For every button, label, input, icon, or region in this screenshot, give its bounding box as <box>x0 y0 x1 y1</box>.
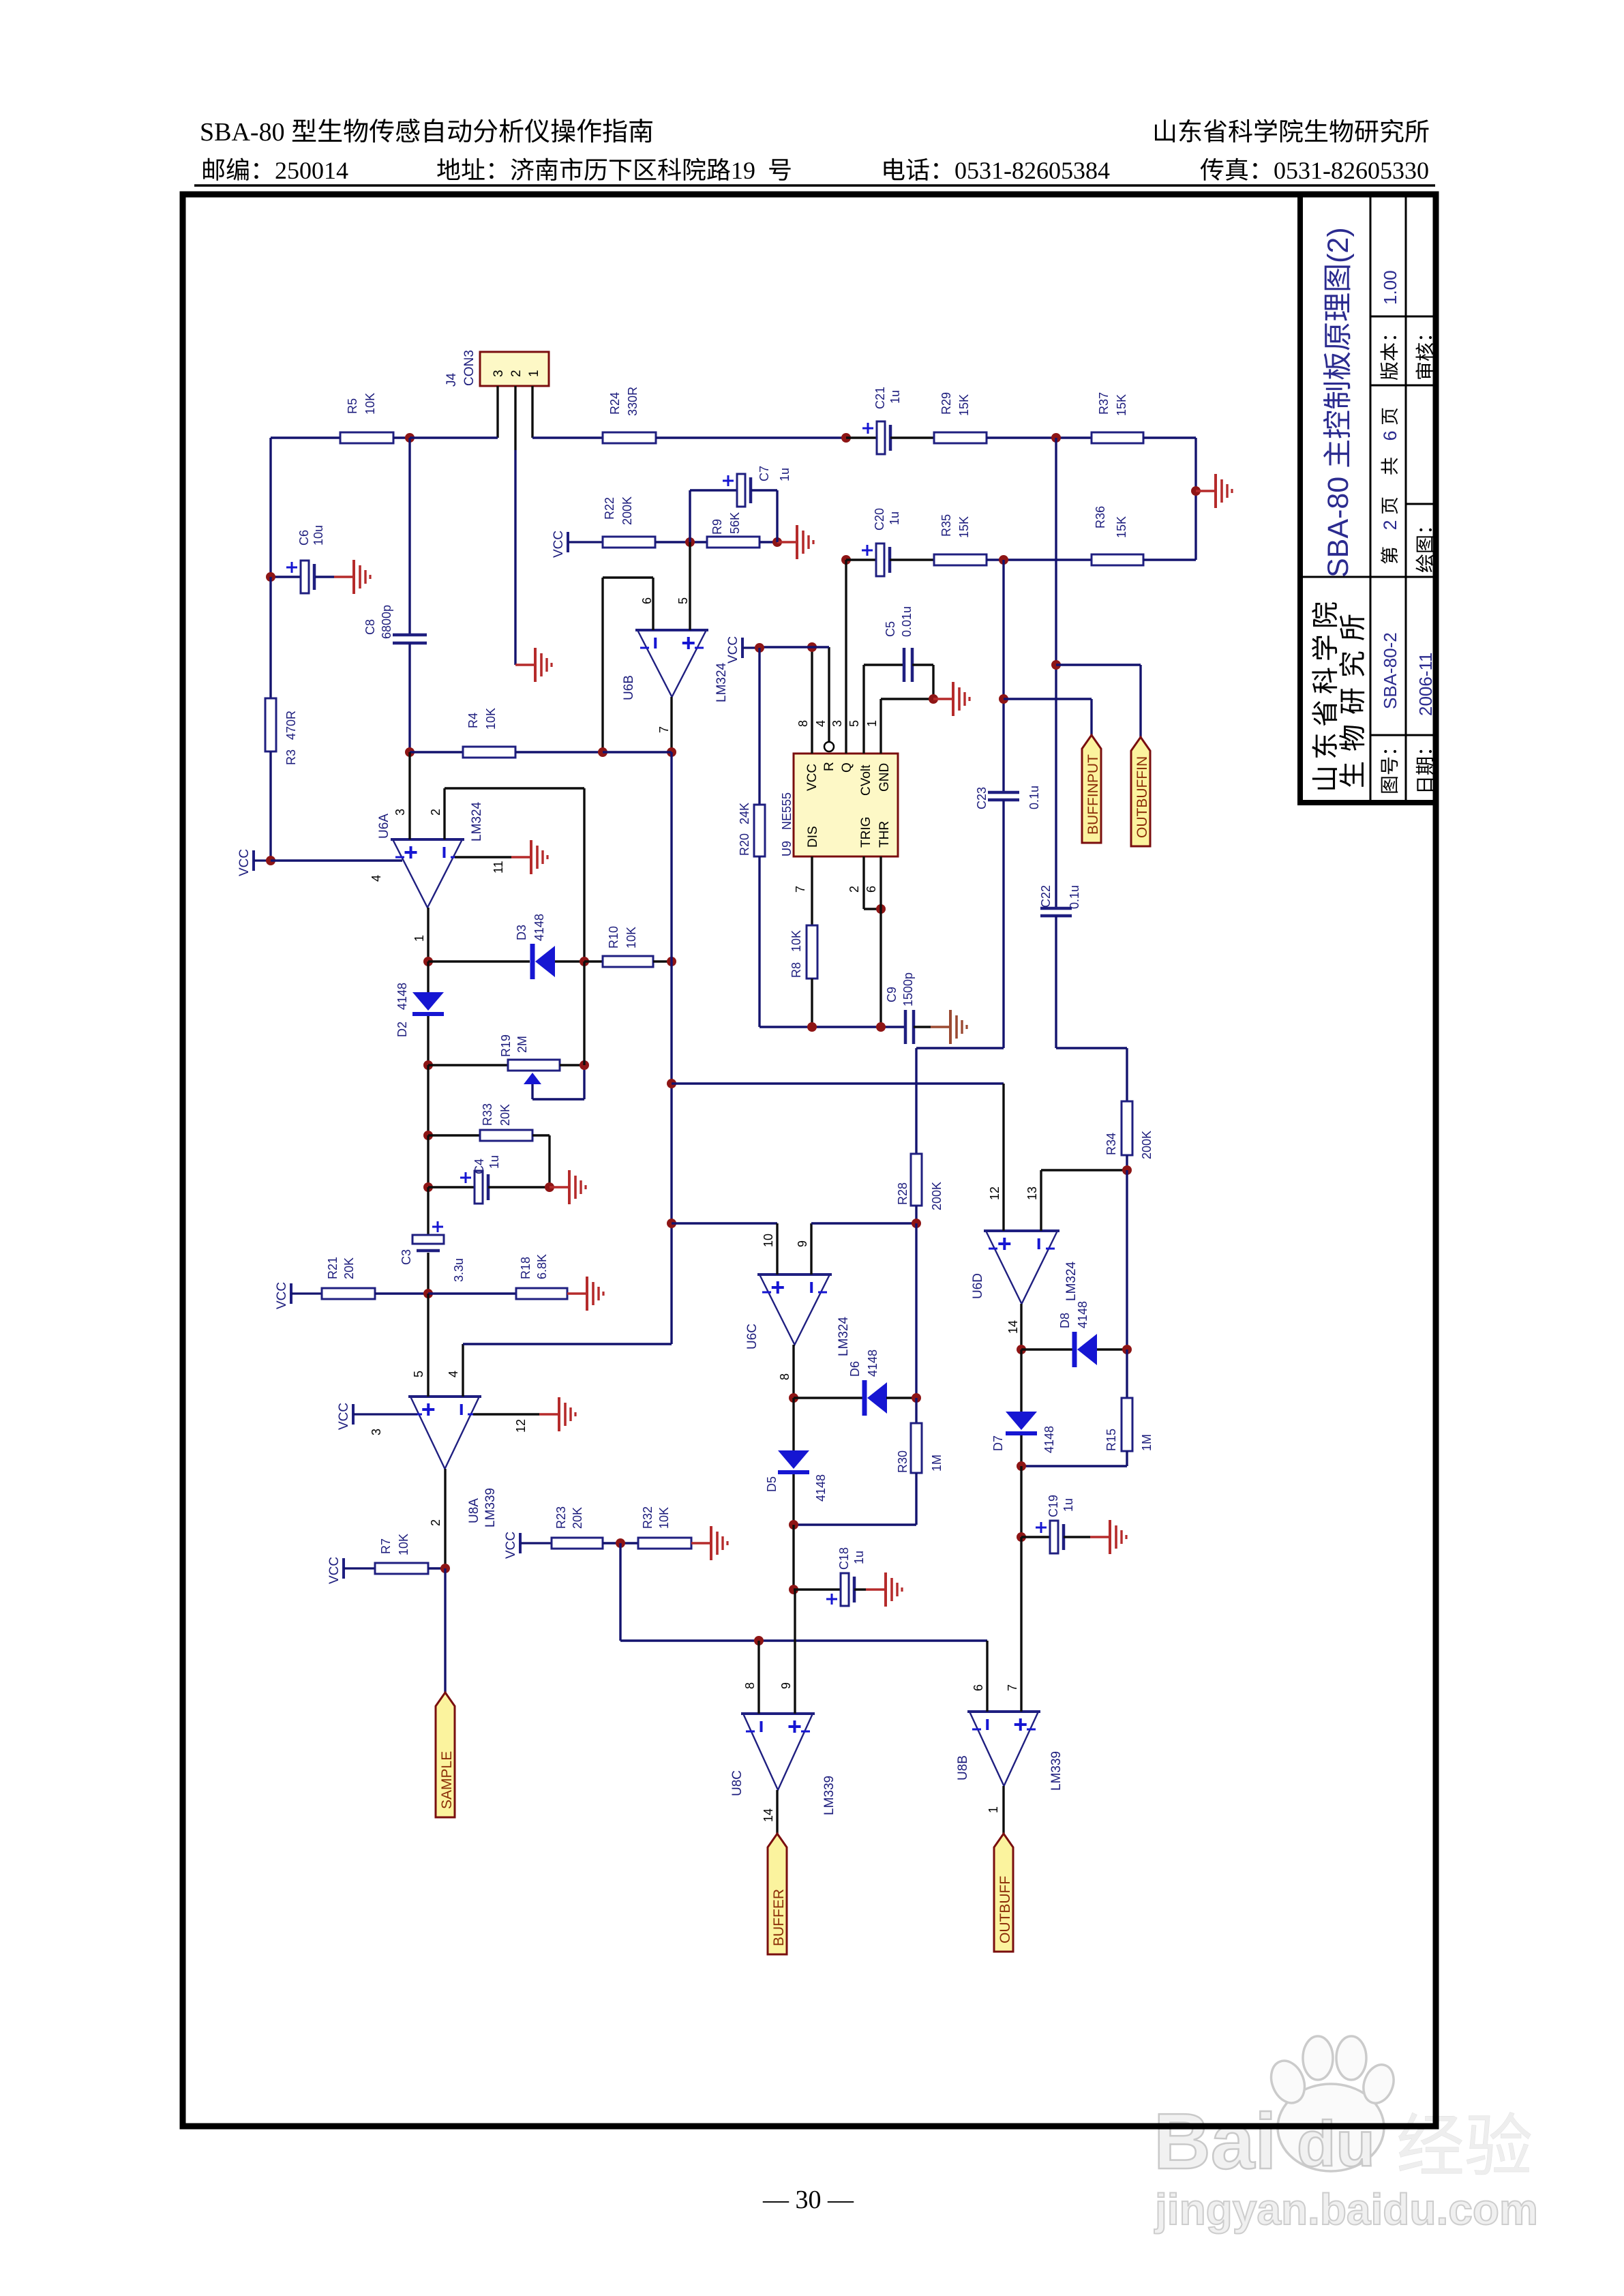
resistor R21 <box>322 1257 428 1299</box>
svg-text:4: 4 <box>447 1371 460 1377</box>
svg-text:6: 6 <box>864 886 878 893</box>
node R7-output junction <box>440 1564 450 1573</box>
node pin2-pin6 junction <box>876 904 886 914</box>
wire U8A output <box>429 1469 445 1568</box>
svg-text:LM324: LM324 <box>470 801 484 841</box>
node U6A out junction <box>423 957 530 966</box>
svg-text:R20: R20 <box>738 833 751 856</box>
svg-text:10K: 10K <box>625 927 638 949</box>
svg-text:4148: 4148 <box>1076 1301 1089 1328</box>
svg-text:R10: R10 <box>607 926 620 949</box>
svg-text:5: 5 <box>676 597 690 604</box>
svg-text:2: 2 <box>429 1519 442 1526</box>
svg-text:C20: C20 <box>873 508 886 531</box>
svg-text:2: 2 <box>509 370 524 377</box>
node D3-R10 junction <box>580 957 603 966</box>
node C4-ground junction <box>545 1182 554 1192</box>
node BUFFINPUT tap <box>999 694 1092 735</box>
node R23-R32 junction <box>616 1538 625 1548</box>
node U6D-out junction <box>1017 1345 1072 1354</box>
svg-text:R30: R30 <box>896 1450 909 1473</box>
svg-text:C9: C9 <box>885 987 899 1002</box>
wire C23 to R28 <box>916 1048 1004 1154</box>
wire J4 pin3 stub <box>496 386 498 438</box>
resistor R3 <box>265 577 298 861</box>
diode D7 <box>991 1350 1056 1466</box>
svg-text:4148: 4148 <box>1042 1426 1056 1453</box>
svg-text:R19: R19 <box>499 1034 513 1057</box>
node D7-R15 junction <box>1017 1461 1026 1537</box>
node rail2 tap <box>841 555 851 565</box>
svg-text:1.00: 1.00 <box>1380 270 1400 305</box>
field version <box>1380 336 1398 380</box>
svg-text:R29: R29 <box>939 392 953 415</box>
svg-text:6: 6 <box>640 597 654 604</box>
svg-text:11: 11 <box>492 861 505 874</box>
svg-text:TRIG: TRIG <box>859 817 873 848</box>
resistor R20 <box>738 648 765 1027</box>
resistor R35 <box>934 514 1092 565</box>
wire U9 pin2 trigger <box>847 856 881 909</box>
svg-text:10K: 10K <box>790 930 803 952</box>
svg-text:R5: R5 <box>346 398 359 414</box>
wire rail J4 to R24 <box>532 436 603 438</box>
capacitor C4 <box>460 1155 550 1204</box>
svg-text:C22: C22 <box>1039 885 1053 908</box>
node VCC-R3 junction <box>266 856 402 882</box>
svg-text:3: 3 <box>830 720 844 727</box>
capacitor C5 <box>884 606 933 699</box>
svg-text:4148: 4148 <box>395 983 409 1010</box>
op-amp U8C <box>730 1714 837 1815</box>
node D5-R30 junction <box>789 1520 798 1590</box>
watermark Baidu logo <box>1154 2036 1399 2186</box>
wire U9 pin7 discharge <box>794 856 812 925</box>
svg-text:1: 1 <box>865 720 879 727</box>
ground C9 <box>931 1010 967 1044</box>
ground C6 <box>334 560 370 594</box>
wire R33 to C4 row <box>427 1135 429 1187</box>
node R28-pin9 junction <box>912 1219 921 1398</box>
net flag SAMPLE <box>436 1568 455 1817</box>
resistor R37 <box>1092 392 1196 443</box>
svg-text:R: R <box>822 762 837 771</box>
svg-text:VCC: VCC <box>327 1557 342 1584</box>
resistor R28 <box>896 1154 944 1223</box>
wire U8B output <box>987 1786 1004 1834</box>
op-amp U6C <box>745 1274 851 1356</box>
node R4-U6B-pin6 junction <box>598 747 607 757</box>
resistor R24 <box>603 387 846 443</box>
svg-text:200K: 200K <box>930 1182 944 1210</box>
svg-text:THR: THR <box>877 821 892 848</box>
svg-text:15K: 15K <box>957 516 971 538</box>
wire left rail <box>269 438 271 577</box>
wire VCC rail U9 <box>760 646 829 648</box>
node R10-U6B-out junction <box>667 752 676 966</box>
svg-text:1u: 1u <box>778 468 792 481</box>
svg-text:4148: 4148 <box>814 1474 828 1502</box>
svg-text:VCC: VCC <box>275 1282 289 1309</box>
resistor R10 <box>603 926 672 967</box>
node VCC-pin8 junction <box>807 642 817 652</box>
node C8-R4 junction <box>405 747 463 757</box>
svg-text:6: 6 <box>1380 430 1400 441</box>
svg-text:VCC: VCC <box>237 849 252 876</box>
node D2-R19 junction <box>423 1060 508 1070</box>
svg-text:15K: 15K <box>1115 394 1128 416</box>
power VCC R22 <box>552 531 603 558</box>
svg-text:R36: R36 <box>1094 506 1107 528</box>
wire U8B pin7 input <box>1006 1537 1021 1712</box>
wire R23 node down <box>620 1543 987 1641</box>
svg-text:9: 9 <box>779 1682 793 1689</box>
svg-text:J4: J4 <box>445 373 459 387</box>
svg-text:R9: R9 <box>710 519 724 535</box>
resistor R18 <box>516 1254 567 1299</box>
svg-text:C4: C4 <box>472 1159 486 1174</box>
wire U6C pin9 input <box>796 1223 916 1274</box>
wire 555 bottom rail <box>760 1026 904 1028</box>
svg-text:1: 1 <box>527 370 541 377</box>
svg-text:R4: R4 <box>466 713 480 728</box>
svg-text:20K: 20K <box>498 1104 512 1126</box>
capacitor C18 <box>826 1547 866 1606</box>
svg-text:GND: GND <box>877 763 892 792</box>
svg-text:15K: 15K <box>1115 516 1128 538</box>
svg-text:LM324: LM324 <box>715 662 729 702</box>
capacitor C6 <box>271 525 334 593</box>
header rule <box>194 184 1435 187</box>
resistor R15 <box>1021 1350 1154 1466</box>
svg-text:VCC: VCC <box>337 1403 351 1430</box>
wire U6A pin11 <box>455 857 511 874</box>
svg-text:SAMPLE: SAMPLE <box>439 1751 455 1809</box>
wire U6D output <box>1006 1304 1021 1350</box>
svg-text:4: 4 <box>814 720 828 727</box>
svg-text:4148: 4148 <box>866 1350 879 1377</box>
svg-text:— 30 —: — 30 — <box>762 2186 854 2214</box>
svg-text:R33: R33 <box>481 1103 494 1126</box>
power VCC U8A supply <box>337 1403 417 1435</box>
svg-text:0.1u: 0.1u <box>1027 786 1041 809</box>
wire C22 to R34 <box>1056 1048 1127 1101</box>
svg-text:3: 3 <box>370 1429 383 1435</box>
connector J4 CON3 <box>445 350 549 387</box>
svg-text:U9: U9 <box>780 841 794 856</box>
svg-text:du: du <box>1297 2108 1375 2179</box>
svg-text:1u: 1u <box>888 390 902 404</box>
power VCC U6A supply <box>237 849 271 876</box>
svg-text:LM324: LM324 <box>837 1316 851 1356</box>
wire U8C pin9 input <box>779 1590 795 1714</box>
svg-text:1u: 1u <box>852 1551 866 1564</box>
field date <box>1416 750 1434 791</box>
wire U8C output <box>762 1790 777 1834</box>
svg-text:7: 7 <box>657 726 671 733</box>
node R19-wiper junction <box>580 961 589 1070</box>
svg-text:NE555: NE555 <box>780 792 794 830</box>
svg-text:VCC: VCC <box>805 764 819 791</box>
svg-text:Bai: Bai <box>1154 2097 1277 2186</box>
svg-text:10: 10 <box>762 1234 775 1247</box>
resistor R23 <box>552 1506 638 1549</box>
power VCC R7 <box>327 1557 375 1584</box>
op-amp U6A <box>377 801 484 908</box>
svg-text:R35: R35 <box>939 514 953 537</box>
svg-text:330R: 330R <box>626 387 640 416</box>
svg-text:1M: 1M <box>930 1455 944 1472</box>
field reviewer <box>1415 336 1433 379</box>
svg-text:1u: 1u <box>487 1155 501 1169</box>
op-amp U8A <box>408 1397 498 1527</box>
diode D6 <box>848 1350 916 1416</box>
title text SBA-80 main control board schematic <box>1322 227 1355 578</box>
wire U6A output <box>412 908 428 961</box>
resistor R32 <box>638 1506 691 1549</box>
svg-text:10K: 10K <box>397 1534 410 1555</box>
svg-text:0.1u: 0.1u <box>1068 885 1081 909</box>
wire U8A pin4 input <box>447 1344 672 1397</box>
svg-text:8: 8 <box>778 1373 792 1380</box>
resistor R5 <box>271 393 410 443</box>
svg-text:C18: C18 <box>837 1547 851 1570</box>
svg-text:C3: C3 <box>400 1249 413 1265</box>
node R22-R9 junction <box>685 537 695 547</box>
power VCC R21 <box>275 1282 322 1309</box>
op-amp U8B <box>956 1712 1064 1791</box>
svg-text:19: 19 <box>731 157 755 184</box>
wire U6A pin2 feedback <box>429 788 584 961</box>
node rail2-R36 junction <box>999 555 1008 565</box>
svg-text:9: 9 <box>796 1240 809 1247</box>
ground right rail <box>1191 474 1232 508</box>
svg-text:SBA-80: SBA-80 <box>1322 477 1355 578</box>
node R9-ground junction <box>772 537 782 547</box>
svg-text:7: 7 <box>794 886 807 893</box>
diode D2 <box>395 961 444 1065</box>
header title line <box>200 118 652 147</box>
node VCC-R20 junction <box>755 643 764 653</box>
capacitor C20 <box>846 508 934 576</box>
svg-text:6800p: 6800p <box>380 605 393 639</box>
svg-text:2: 2 <box>847 886 861 893</box>
net flag OUTBUFFIN <box>1131 737 1150 846</box>
svg-text:BUFFER: BUFFER <box>771 1889 787 1946</box>
potentiometer R19 <box>499 1034 584 1099</box>
svg-text:10K: 10K <box>484 708 498 730</box>
svg-text:U6C: U6C <box>745 1324 760 1350</box>
svg-text:3: 3 <box>393 809 407 816</box>
field drawer <box>1415 528 1433 572</box>
svg-text:1u: 1u <box>1062 1498 1075 1512</box>
svg-text:DIS: DIS <box>806 826 820 848</box>
node R21-R18 junction <box>423 1289 516 1298</box>
svg-text:C21: C21 <box>873 387 887 409</box>
wire U6D pin13 input <box>1025 1170 1127 1231</box>
header address line <box>203 157 348 184</box>
svg-text:R15: R15 <box>1104 1429 1118 1451</box>
capacitor C3 <box>400 1187 466 1294</box>
svg-text:8: 8 <box>796 720 810 727</box>
node pin1-C5-ground junction <box>929 694 938 704</box>
diode D5 <box>765 1398 828 1525</box>
wire U6B pin6 input <box>603 578 654 752</box>
svg-text:CON3: CON3 <box>462 350 477 386</box>
diode D8 <box>1058 1301 1127 1367</box>
svg-text:C19: C19 <box>1047 1495 1060 1517</box>
wire U8C pin8 input <box>743 1641 759 1714</box>
svg-text:R32: R32 <box>641 1506 655 1529</box>
svg-text:SBA-80: SBA-80 <box>200 118 285 147</box>
svg-text:14: 14 <box>1006 1320 1020 1334</box>
resistor R33 <box>480 1103 550 1187</box>
node U6D-plus tap <box>667 1079 1004 1088</box>
svg-text:C5: C5 <box>884 621 897 637</box>
svg-text:5: 5 <box>412 1371 425 1377</box>
svg-text:R7: R7 <box>379 1538 393 1554</box>
resistor R34 <box>1104 1101 1154 1170</box>
svg-text:15K: 15K <box>957 394 971 416</box>
svg-text:C23: C23 <box>975 787 989 809</box>
svg-text:R18: R18 <box>519 1257 532 1279</box>
svg-text:10K: 10K <box>657 1507 671 1529</box>
svg-text:24K: 24K <box>738 803 751 824</box>
svg-text:U8A: U8A <box>467 1498 481 1523</box>
svg-text:U6A: U6A <box>377 814 391 839</box>
node OUTBUFFIN tap <box>1051 660 1141 737</box>
svg-text:C7: C7 <box>757 466 771 481</box>
node R33 junction <box>423 1131 480 1140</box>
svg-text:LM339: LM339 <box>1049 1751 1064 1791</box>
svg-text:D2: D2 <box>395 1022 409 1037</box>
wire U6C output <box>778 1345 794 1398</box>
node C4 junction left <box>423 1182 475 1192</box>
svg-text:R22: R22 <box>603 497 616 520</box>
svg-text:3.3u: 3.3u <box>452 1258 466 1282</box>
svg-text:7: 7 <box>1006 1684 1019 1691</box>
ground J4 pin2 <box>515 648 552 682</box>
svg-text:1M: 1M <box>1140 1434 1154 1451</box>
title block border <box>1297 194 1439 803</box>
svg-text:D6: D6 <box>848 1361 862 1377</box>
drawing frame <box>183 194 1436 2126</box>
node R5-C8 junction <box>405 433 498 443</box>
svg-text:10K: 10K <box>363 393 377 415</box>
wire U8B pin6 input <box>972 1641 987 1712</box>
wire U9 pin6 threshold <box>864 856 881 1027</box>
wire U6B output <box>657 697 672 752</box>
ground R9 <box>777 525 813 559</box>
svg-text:U8B: U8B <box>956 1755 970 1780</box>
svg-text:56K: 56K <box>728 512 742 534</box>
node U6C-plus tap <box>667 1219 777 1228</box>
capacitor C19 <box>1036 1495 1090 1553</box>
svg-text:0531-82605330: 0531-82605330 <box>1274 157 1429 184</box>
svg-text:VCC: VCC <box>504 1532 518 1559</box>
node C6 junction <box>266 572 275 582</box>
capacitor C7 <box>690 466 792 542</box>
wire U9 pin1 GND <box>865 699 933 754</box>
ground R18 <box>567 1277 603 1311</box>
wire U9 pin8 VCC <box>796 647 812 754</box>
net flag OUTBUFF <box>994 1834 1013 1952</box>
node D6-R30 junction <box>912 1393 921 1403</box>
resistor R22 <box>603 496 707 548</box>
svg-text:D5: D5 <box>765 1476 779 1492</box>
wire U6B pin5 input <box>676 542 690 630</box>
svg-text:6: 6 <box>972 1684 985 1691</box>
node C18 junction <box>789 1585 841 1594</box>
svg-text:OUTBUFFIN: OUTBUFFIN <box>1134 756 1150 838</box>
svg-text:200K: 200K <box>1140 1131 1154 1159</box>
node pin8 tap <box>754 1636 764 1645</box>
net flag BUFFER <box>768 1834 787 1954</box>
svg-text:D7: D7 <box>991 1435 1005 1451</box>
svg-text:OUTBUFF: OUTBUFF <box>997 1876 1013 1943</box>
node rail1-R37 junction <box>1051 433 1061 443</box>
resistor R8 <box>790 925 817 1027</box>
svg-text:0531-82605384: 0531-82605384 <box>954 157 1110 184</box>
svg-text:R37: R37 <box>1097 392 1111 415</box>
net flag BUFFINPUT <box>1082 735 1101 843</box>
svg-text:Q: Q <box>840 762 854 773</box>
svg-text:20K: 20K <box>342 1257 356 1279</box>
svg-text:R23: R23 <box>554 1506 568 1529</box>
ground U9 pin1 <box>933 682 969 716</box>
capacitor C21 <box>846 387 934 454</box>
svg-text:1u: 1u <box>888 511 901 525</box>
svg-text:200K: 200K <box>620 496 634 525</box>
header institute line <box>1155 119 1428 143</box>
node U6C-out junction <box>789 1393 862 1403</box>
svg-text:2M: 2M <box>515 1036 529 1053</box>
svg-text:4148: 4148 <box>532 914 546 941</box>
svg-text:14: 14 <box>762 1808 775 1822</box>
svg-text:R34: R34 <box>1104 1133 1118 1155</box>
ground U8A pin12 <box>539 1397 575 1431</box>
svg-text:VCC: VCC <box>552 531 566 558</box>
resistor R36 <box>1092 506 1196 565</box>
svg-text:U6B: U6B <box>622 675 636 700</box>
node R8-bottom junction <box>807 1022 817 1032</box>
svg-text:2006-11: 2006-11 <box>1415 653 1436 717</box>
power VCC U6B area <box>726 636 760 664</box>
svg-text:4: 4 <box>370 875 383 882</box>
wire U6A pin3 input <box>393 752 410 839</box>
wire U6C pin10 input <box>762 1223 777 1274</box>
ground C19 <box>1090 1520 1126 1554</box>
resistor R7 <box>375 1534 445 1574</box>
capacitor C9 <box>885 972 931 1044</box>
svg-text:U8C: U8C <box>730 1770 745 1796</box>
IC U9 NE555 <box>780 754 898 856</box>
svg-text:C6: C6 <box>297 530 311 546</box>
svg-text:12: 12 <box>988 1187 1002 1200</box>
wire U6B output column <box>670 961 672 1344</box>
wire U9 pin5 CVolt <box>847 665 904 754</box>
ground C18 <box>866 1572 902 1607</box>
svg-text:1: 1 <box>987 1806 1000 1813</box>
svg-text:BUFFINPUT: BUFFINPUT <box>1085 754 1101 835</box>
svg-text:R3: R3 <box>284 749 298 765</box>
svg-text:CVolt: CVolt <box>859 764 873 796</box>
svg-text:3: 3 <box>492 370 506 377</box>
svg-text:470R: 470R <box>284 711 298 740</box>
node pin6-bottom junction <box>876 1022 886 1032</box>
node D8-R34 junction <box>1122 1345 1132 1354</box>
svg-text:1500p: 1500p <box>901 972 915 1007</box>
